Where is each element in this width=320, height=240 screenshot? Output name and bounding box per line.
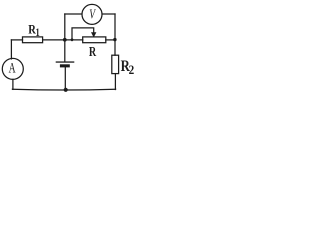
voltmeter V1 circle bbox=[82, 4, 102, 24]
rheostat R body bbox=[83, 37, 106, 43]
wire: battery bottom lead bbox=[64, 67, 66, 89]
ammeter A1 circle bbox=[2, 58, 23, 79]
junction node bottom rail bbox=[64, 88, 68, 92]
resistor R2 bbox=[112, 55, 119, 73]
battery B1 short thick plate bbox=[60, 64, 70, 67]
wire: R2 bottom lead bbox=[114, 74, 116, 90]
svg-text:A: A bbox=[9, 61, 16, 77]
wire: mid vertical battery top lead bbox=[64, 14, 66, 62]
svg-text:1: 1 bbox=[36, 25, 40, 39]
wire: voltmeter left lead bbox=[65, 13, 82, 15]
wire: rheostat right lead bbox=[106, 39, 115, 41]
wiper arrowhead bbox=[91, 32, 96, 37]
wire: right branch top vertical bbox=[114, 14, 116, 55]
svg-text:2: 2 bbox=[129, 63, 134, 77]
wire: wiper arm bbox=[72, 28, 94, 40]
junction node at battery top bbox=[63, 38, 67, 42]
wire: ammeter bottom lead bbox=[12, 79, 14, 89]
wire: R1 right lead to node bbox=[43, 39, 65, 41]
wire: voltmeter right lead bbox=[102, 13, 115, 15]
junction node right bbox=[113, 38, 116, 41]
wire: left branch down to ammeter bbox=[10, 40, 12, 59]
junction node wiper tap bbox=[71, 38, 74, 41]
battery B1 long plate bbox=[56, 61, 75, 62]
svg-text:R: R bbox=[89, 45, 97, 60]
wire: node to rheostat left end bbox=[65, 39, 83, 41]
resistor R1 bbox=[23, 37, 43, 43]
svg-text:V: V bbox=[89, 7, 96, 22]
wire: bottom rail bbox=[12, 88, 115, 91]
wire: R1 left lead bbox=[11, 39, 22, 41]
